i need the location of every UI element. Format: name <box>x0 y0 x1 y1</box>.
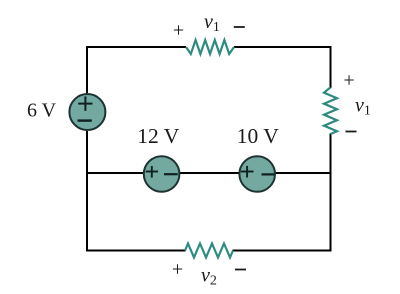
wire bottom rail left segment <box>87 250 186 252</box>
voltage source 6V circle <box>69 94 105 130</box>
label minus (top resistor, right) <box>234 26 245 28</box>
wire middle rail: between 12V and 10V sources <box>180 172 240 174</box>
voltage source 12V circle <box>144 156 180 192</box>
svg-text:+: + <box>172 258 183 280</box>
10V minus sign <box>262 173 275 175</box>
wire right rail lower (resistor to bottom corner) <box>330 134 332 252</box>
resistor bottom (v2) <box>185 244 233 258</box>
6V minus sign <box>78 119 92 121</box>
wire right rail upper (top corner to resistor) <box>330 46 332 88</box>
wire left rail lower (6V source to bottom corner) <box>86 131 88 252</box>
wire top rail left segment <box>87 46 186 48</box>
voltage source 10V circle <box>239 156 275 192</box>
12V minus sign <box>164 173 178 175</box>
label minus (right resistor, bottom) <box>346 131 357 133</box>
resistor right (v1) <box>324 87 337 134</box>
wire top rail right segment <box>234 46 332 48</box>
10V plus sign <box>241 171 254 173</box>
svg-text:12 V: 12 V <box>137 124 179 148</box>
resistor top (v1) <box>186 40 234 54</box>
wire middle rail: left rail to 12V source <box>87 172 144 174</box>
wire bottom rail right segment <box>233 250 332 252</box>
wire left rail upper (top corner to 6V source) <box>86 46 88 94</box>
svg-text:10 V: 10 V <box>237 124 279 148</box>
svg-text:+: + <box>173 19 184 41</box>
svg-text:6 V: 6 V <box>27 100 57 122</box>
12V plus sign <box>146 171 158 173</box>
label minus (bottom resistor, right) <box>235 269 246 271</box>
6V plus sign <box>78 103 92 105</box>
wire middle rail: 10V source to right rail <box>275 172 330 174</box>
svg-text:+: + <box>343 69 354 91</box>
